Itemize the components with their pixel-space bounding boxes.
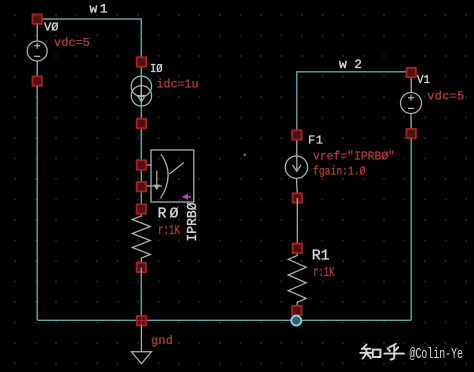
- pin I0 minus: [137, 119, 146, 128]
- pin R1 2: [292, 306, 301, 315]
- svg-text:V1: V1: [417, 73, 430, 87]
- svg-text:IØ: IØ: [150, 62, 163, 76]
- svg-text:vdc=5: vdc=5: [427, 90, 464, 104]
- pin F1 plus: [292, 130, 301, 139]
- current probe IPRB0: [146, 150, 194, 202]
- wire R0 to ground rail: [140, 268, 142, 321]
- svg-text:vdc=5: vdc=5: [54, 36, 90, 50]
- ground: [131, 325, 151, 363]
- watermark: [360, 344, 463, 363]
- pin R1 1: [293, 244, 302, 253]
- label R0: [158, 206, 179, 223]
- junction dot: [291, 316, 301, 326]
- wire V0 to ground rail: [36, 86, 38, 321]
- svg-text:idc=1u: idc=1u: [157, 78, 199, 92]
- svg-text:VØ: VØ: [44, 21, 59, 35]
- net label w2: [339, 57, 362, 72]
- label V0: [44, 21, 59, 35]
- value vref of F1: [313, 150, 395, 164]
- voltage source V1: [401, 73, 422, 134]
- value r:1K of R0: [158, 224, 181, 239]
- pin V1 plus: [407, 68, 416, 77]
- cccs F1: [285, 135, 307, 193]
- pin V1 minus: [407, 129, 416, 138]
- pin R0 2: [137, 263, 146, 272]
- link F1 to R1: [296, 198, 298, 248]
- wire w1: [37, 19, 141, 209]
- pin V0 minus: [33, 76, 42, 85]
- net label gnd: [151, 334, 173, 348]
- value fgain of F1: [313, 165, 366, 179]
- svg-text:IPRBØ: IPRBØ: [185, 203, 201, 242]
- voltage source V0: [27, 19, 47, 81]
- net label w1: [90, 2, 108, 17]
- pin IPRB0 1: [137, 160, 146, 169]
- wire V1 to ground rail: [410, 139, 412, 321]
- svg-text:@Colin-Ye: @Colin-Ye: [410, 347, 464, 363]
- value vdc=5 of V0: [54, 36, 90, 50]
- svg-text:F1: F1: [308, 134, 323, 148]
- junction pin gnd: [137, 316, 146, 325]
- label I0: [150, 62, 163, 76]
- wire w2: [297, 72, 411, 135]
- pin V0 plus: [33, 14, 42, 23]
- resistor R1: [288, 248, 306, 310]
- svg-text:r:1K: r:1K: [158, 224, 181, 239]
- svg-text:R1: R1: [312, 248, 330, 265]
- resistor R0: [132, 209, 150, 268]
- pin R0 1: [137, 204, 146, 213]
- value idc=1u of I0: [157, 78, 199, 92]
- pin F1 minus: [293, 193, 302, 202]
- value vdc=5 of V1: [427, 90, 464, 104]
- current source I0: [131, 76, 151, 106]
- pin I0 plus: [137, 57, 146, 66]
- label IPRB0: [185, 203, 201, 242]
- svg-text:gnd: gnd: [151, 334, 173, 348]
- value r:1K of R1: [313, 266, 335, 281]
- svg-text:r:1K: r:1K: [313, 266, 335, 281]
- label F1: [308, 134, 323, 148]
- svg-text:fgain:1.Ø: fgain:1.Ø: [313, 165, 366, 179]
- svg-text:vref="IPRBØ": vref="IPRBØ": [313, 150, 395, 164]
- label R1: [312, 248, 330, 265]
- orientation arrow of IPRB0: [182, 194, 191, 200]
- pin IPRB0 2: [137, 182, 146, 191]
- ground rail wire: [37, 319, 411, 321]
- stray dot: [244, 154, 246, 156]
- label V1: [417, 73, 430, 87]
